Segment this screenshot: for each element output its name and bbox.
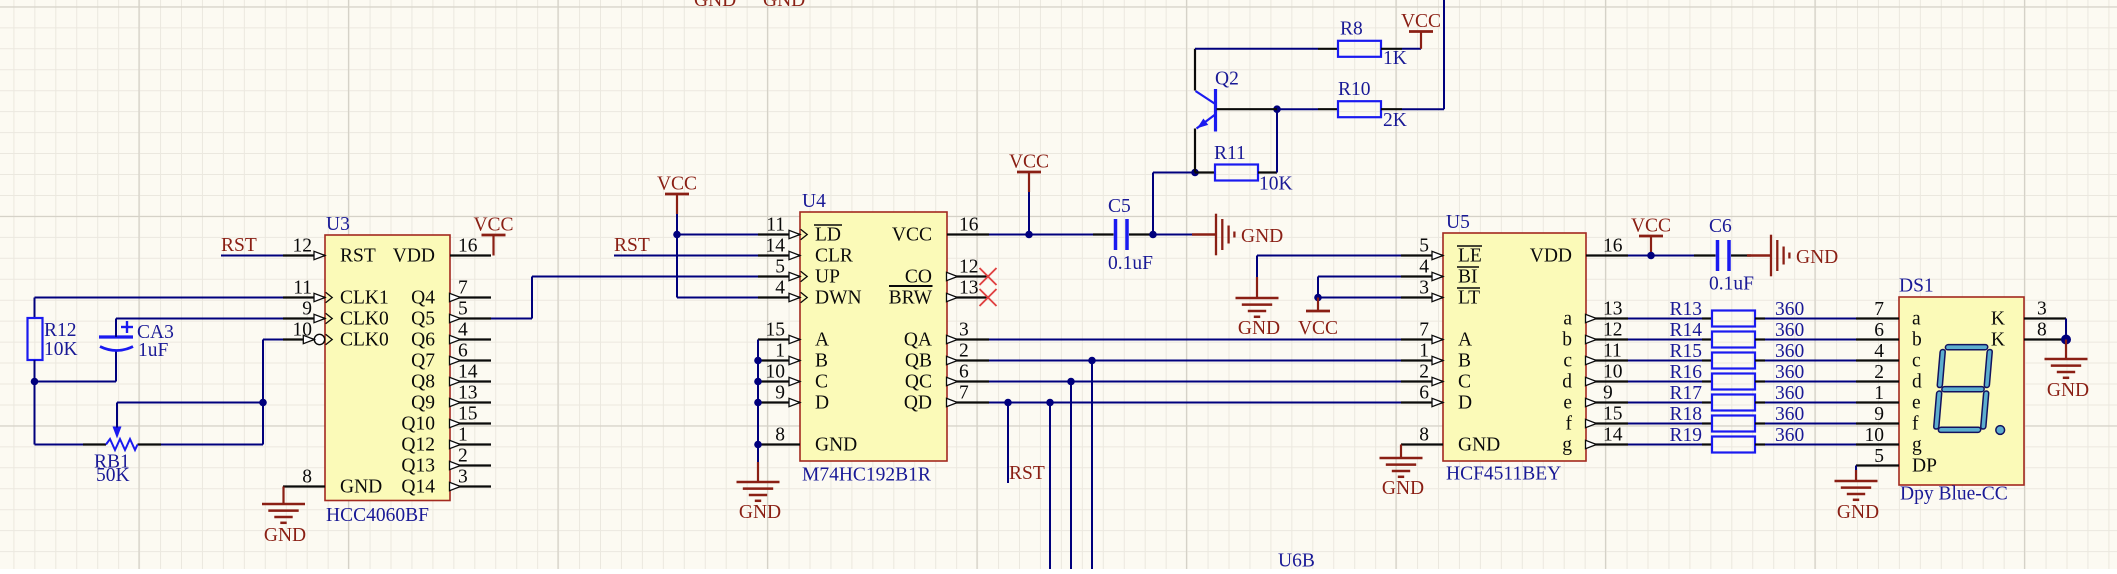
- svg-text:C5: C5: [1108, 196, 1131, 217]
- svg-text:10: 10: [1865, 425, 1885, 446]
- wire QC drop to U6B: [1070, 382, 1072, 570]
- svg-text:9: 9: [775, 383, 785, 404]
- transistor Q2 NPN: [1195, 49, 1239, 173]
- U5 pin 4 BI: [1401, 257, 1479, 288]
- wire R10 to top rail: [1402, 0, 1444, 109]
- svg-text:Q10: Q10: [401, 413, 435, 434]
- svg-text:VCC: VCC: [1009, 152, 1049, 173]
- resistor R11 10K: [1195, 143, 1293, 195]
- svg-text:C: C: [1458, 371, 1471, 392]
- svg-text:e: e: [1563, 392, 1572, 413]
- svg-text:10: 10: [293, 320, 313, 341]
- capacitor CA3 1uF polarized: [99, 321, 174, 361]
- svg-text:CLK0: CLK0: [340, 329, 389, 350]
- svg-text:d: d: [1912, 371, 1922, 392]
- resistor R18 360: [1669, 404, 1804, 432]
- ground GND below U3: [262, 487, 306, 547]
- resistor R10 2K: [1318, 79, 1407, 131]
- svg-text:14: 14: [458, 362, 478, 383]
- svg-text:BRW: BRW: [889, 287, 933, 308]
- svg-text:Q6: Q6: [411, 329, 435, 350]
- svg-text:1uF: 1uF: [138, 340, 169, 361]
- svg-text:GND: GND: [1238, 318, 1280, 339]
- svg-text:B: B: [815, 350, 828, 371]
- U5 pin 13 a: [1563, 299, 1628, 330]
- wire LE: [1257, 255, 1401, 257]
- svg-text:QD: QD: [904, 392, 932, 413]
- svg-text:5: 5: [458, 299, 468, 320]
- wire Q2 base: [1217, 108, 1319, 110]
- net label RST (drop): [1009, 463, 1045, 484]
- DS1 pin 8 K: [1991, 320, 2066, 351]
- DS1 pin 3 K: [1991, 299, 2066, 330]
- svg-text:f: f: [1566, 413, 1573, 434]
- U5 pin 3 LT: [1401, 278, 1480, 309]
- svg-text:QA: QA: [904, 329, 932, 350]
- U3 pin 16 VDD: [393, 236, 491, 267]
- power VCC at U3 VDD: [473, 215, 513, 256]
- svg-text:RST: RST: [614, 235, 650, 256]
- U3 pin 15 Q10: [401, 404, 491, 435]
- power VCC above U4: [657, 174, 697, 235]
- wire U4 ABCD to ground rail: [757, 340, 759, 463]
- svg-text:360: 360: [1775, 425, 1804, 446]
- clipped GND labels at top edge: [694, 0, 805, 11]
- svg-text:7: 7: [1419, 320, 1429, 341]
- svg-text:13: 13: [959, 278, 979, 299]
- power VCC at R8: [1401, 11, 1441, 49]
- U4 pin 5 UP: [758, 257, 840, 288]
- svg-text:3: 3: [458, 467, 468, 488]
- wire R11 right to base node: [1276, 109, 1278, 172]
- svg-text:16: 16: [1603, 236, 1623, 257]
- svg-text:8: 8: [302, 467, 312, 488]
- svg-text:R10: R10: [1338, 79, 1371, 100]
- svg-text:g: g: [1562, 434, 1572, 455]
- U3 pin 14 Q8: [411, 362, 491, 393]
- svg-text:2: 2: [1419, 362, 1429, 383]
- U5 pin 1 B: [1401, 341, 1471, 372]
- svg-text:4: 4: [1419, 257, 1429, 278]
- svg-text:14: 14: [1603, 425, 1623, 446]
- svg-text:R13: R13: [1669, 299, 1702, 320]
- svg-text:RST: RST: [221, 235, 257, 256]
- svg-text:9: 9: [1874, 404, 1884, 425]
- U3 pin 6 Q7: [411, 341, 491, 372]
- wire U5 e to R17: [1628, 402, 1702, 404]
- svg-text:R14: R14: [1669, 320, 1702, 341]
- svg-text:K: K: [1991, 329, 2005, 350]
- svg-text:12: 12: [293, 236, 313, 257]
- svg-text:Dpy Blue-CC: Dpy Blue-CC: [1900, 484, 2008, 505]
- svg-text:VCC: VCC: [1401, 11, 1441, 32]
- svg-text:BI: BI: [1458, 266, 1478, 287]
- junction R12/CA3/RB1 node: [31, 378, 39, 386]
- svg-text:CO: CO: [905, 266, 932, 287]
- svg-text:LD: LD: [815, 224, 841, 245]
- svg-text:GND: GND: [1837, 502, 1879, 523]
- svg-text:6: 6: [1874, 320, 1884, 341]
- wire U5 a to R13: [1628, 318, 1702, 320]
- no-ERC marker on U4 pin 12: [980, 268, 997, 285]
- svg-text:1K: 1K: [1383, 48, 1407, 69]
- junction U4 GND: [754, 441, 762, 449]
- U4 pin 11 LD: [758, 215, 842, 246]
- svg-text:GND: GND: [739, 502, 781, 523]
- svg-text:13: 13: [458, 383, 478, 404]
- svg-text:4: 4: [458, 320, 468, 341]
- svg-text:C: C: [815, 371, 828, 392]
- svg-text:DP: DP: [1912, 455, 1937, 476]
- svg-text:U4: U4: [802, 191, 826, 212]
- wire Q2 collector to R8: [1195, 48, 1318, 50]
- svg-text:8: 8: [775, 425, 785, 446]
- ground GND at U5 LE wire: [1236, 256, 1281, 340]
- IC U5 HCF4511BEY body: [1443, 212, 1586, 485]
- svg-text:15: 15: [458, 404, 478, 425]
- svg-text:LT: LT: [1458, 287, 1480, 308]
- svg-text:13: 13: [1603, 299, 1623, 320]
- resistor R13 360: [1669, 299, 1804, 327]
- display DS1 Dpy Blue-CC body: [1899, 276, 2024, 505]
- wire CA3 top to U3 pin 9: [116, 319, 283, 338]
- svg-text:1: 1: [1874, 383, 1884, 404]
- svg-text:2K: 2K: [1383, 110, 1407, 131]
- DS1 pin 9 f: [1856, 404, 1919, 434]
- U4 pin 7 QD: [904, 383, 989, 414]
- U5 pin 8 GND: [1401, 425, 1500, 456]
- svg-text:12: 12: [959, 257, 979, 278]
- svg-text:DS1: DS1: [1899, 276, 1934, 297]
- wire R18 to DS1 f: [1765, 423, 1856, 425]
- U4 pin 4 DWN: [758, 278, 862, 309]
- svg-text:b: b: [1562, 329, 1572, 350]
- svg-text:RST: RST: [1009, 463, 1045, 484]
- junction U4 C: [754, 378, 762, 386]
- U3 pin 13 Q9: [411, 383, 491, 414]
- wire LT: [1318, 297, 1401, 299]
- U4 pin 6 QC: [905, 362, 989, 393]
- svg-text:1: 1: [775, 341, 785, 362]
- U5 pin 10 d: [1562, 362, 1628, 393]
- svg-text:GND: GND: [763, 0, 805, 11]
- ground GND below K pins: [2045, 340, 2090, 402]
- svg-text:11: 11: [766, 215, 785, 236]
- svg-text:2: 2: [959, 341, 969, 362]
- svg-text:VDD: VDD: [1530, 245, 1572, 266]
- svg-text:10K: 10K: [1259, 174, 1293, 195]
- svg-text:R15: R15: [1669, 341, 1702, 362]
- U5 pin 2 C: [1401, 362, 1471, 393]
- wire BI: [1318, 277, 1401, 298]
- svg-text:GND: GND: [1458, 434, 1500, 455]
- svg-text:11: 11: [293, 278, 312, 299]
- U4 pin 2 QB: [905, 341, 989, 372]
- junction VCC/LD node: [673, 231, 681, 239]
- resistor R16 360: [1669, 362, 1804, 390]
- svg-text:360: 360: [1775, 320, 1804, 341]
- svg-text:360: 360: [1775, 362, 1804, 383]
- DS1 pin 4 c: [1856, 341, 1921, 371]
- U4 pin 16 VCC: [892, 215, 989, 246]
- ground GND at DS1 DP: [1835, 466, 1880, 524]
- wire R15 to DS1 c: [1765, 360, 1856, 362]
- svg-text:2: 2: [458, 446, 468, 467]
- U3 pin 9 CLK0: [283, 299, 389, 330]
- DS1 pin 1 e: [1856, 383, 1921, 413]
- junction K node: [2061, 335, 2071, 345]
- svg-text:CLK1: CLK1: [340, 287, 389, 308]
- wire R13 to DS1 a: [1765, 318, 1856, 320]
- U5 pin 9 e: [1563, 383, 1628, 414]
- svg-text:c: c: [1563, 350, 1572, 371]
- wire CA3 bottom net: [35, 352, 117, 382]
- svg-text:c: c: [1912, 350, 1921, 371]
- svg-text:D: D: [815, 392, 829, 413]
- svg-text:16: 16: [959, 215, 979, 236]
- U3 pin 3 Q14: [401, 467, 491, 498]
- svg-text:VCC: VCC: [657, 174, 697, 195]
- wire U4 VCC net to C5: [989, 234, 1093, 236]
- svg-text:6: 6: [1419, 383, 1429, 404]
- junction C5/Q2 node: [1149, 231, 1157, 239]
- svg-text:10K: 10K: [44, 339, 78, 360]
- svg-text:GND: GND: [2047, 380, 2089, 401]
- svg-text:U6B: U6B: [1278, 551, 1315, 570]
- svg-text:12: 12: [1603, 320, 1623, 341]
- power VCC below LT wire: [1298, 298, 1338, 340]
- ground GND bar right of C5: [1192, 214, 1283, 256]
- wire U5 c to R15: [1628, 360, 1702, 362]
- wire QA to U5 A: [989, 339, 1401, 341]
- U3 pin 10 CLK0: [283, 320, 389, 351]
- wire RB1 wiper net to U3 pin 10: [117, 340, 283, 445]
- svg-text:Q13: Q13: [401, 455, 435, 476]
- resistor R8 1K: [1318, 19, 1407, 70]
- svg-text:d: d: [1562, 371, 1572, 392]
- junction QD drop: [1046, 399, 1054, 407]
- svg-text:R18: R18: [1669, 404, 1702, 425]
- power VCC at U5 VDD: [1628, 216, 1694, 256]
- U5 pin 5 LE: [1401, 236, 1482, 267]
- DS1 pin 6 b: [1856, 320, 1922, 350]
- U5 pin 7 A: [1401, 320, 1472, 351]
- ground GND below U5: [1380, 445, 1425, 500]
- wire QB drop to U6B: [1091, 361, 1093, 570]
- net label RST (left): [221, 235, 257, 256]
- svg-text:A: A: [1458, 329, 1472, 350]
- U5 pin 14 g: [1562, 425, 1628, 456]
- U3 pin 7 Q4: [411, 278, 491, 309]
- svg-text:4: 4: [775, 278, 785, 299]
- svg-text:R11: R11: [1214, 143, 1246, 164]
- resistor R14 360: [1669, 320, 1804, 348]
- svg-text:g: g: [1912, 434, 1922, 455]
- DS1 pin 5 DP: [1856, 446, 1937, 476]
- svg-text:14: 14: [766, 236, 786, 257]
- svg-text:f: f: [1912, 413, 1919, 434]
- svg-text:Q2: Q2: [1215, 69, 1239, 90]
- wire R14 to DS1 b: [1765, 339, 1856, 341]
- svg-text:VCC: VCC: [1631, 216, 1671, 237]
- svg-text:5: 5: [775, 257, 785, 278]
- svg-text:3: 3: [1419, 278, 1429, 299]
- wire VCC to U4 LD and DWN: [677, 235, 758, 298]
- svg-text:VCC: VCC: [892, 224, 932, 245]
- wire R12 bottom: [34, 360, 36, 445]
- capacitor C6 0.1uF: [1694, 216, 1754, 295]
- svg-text:R19: R19: [1669, 425, 1702, 446]
- svg-text:B: B: [1458, 350, 1471, 371]
- U3 pin 4 Q6: [411, 320, 491, 351]
- svg-text:3: 3: [2037, 299, 2047, 320]
- resistor R12: [28, 318, 78, 360]
- svg-text:6: 6: [959, 362, 969, 383]
- svg-text:D: D: [1458, 392, 1472, 413]
- svg-text:GND: GND: [1796, 247, 1838, 268]
- svg-text:Q4: Q4: [411, 287, 435, 308]
- wire RST to U4 CLR: [614, 255, 758, 257]
- wire U5 g to R19: [1628, 444, 1702, 446]
- svg-text:GND: GND: [815, 434, 857, 455]
- svg-text:360: 360: [1775, 299, 1804, 320]
- junction base/R10 node: [1273, 105, 1281, 113]
- resistor R19 360: [1669, 425, 1804, 453]
- junction U4 B: [754, 357, 762, 365]
- svg-text:10: 10: [766, 362, 786, 383]
- svg-text:1: 1: [458, 425, 468, 446]
- svg-text:HCF4511BEY: HCF4511BEY: [1446, 464, 1561, 485]
- junction VCC column node: [1025, 231, 1033, 239]
- svg-text:U3: U3: [326, 214, 350, 235]
- resistor R17 360: [1669, 383, 1804, 411]
- junction QC drop: [1067, 378, 1075, 386]
- svg-text:Q8: Q8: [411, 371, 435, 392]
- svg-text:5: 5: [1419, 236, 1429, 257]
- svg-text:b: b: [1912, 329, 1922, 350]
- U3 pin 11 CLK1: [283, 278, 389, 309]
- wire R17 to DS1 e: [1765, 402, 1856, 404]
- wire R16 to DS1 d: [1765, 381, 1856, 383]
- DS1 pin 10 g: [1856, 425, 1922, 455]
- svg-text:10: 10: [1603, 362, 1623, 383]
- svg-text:16: 16: [458, 236, 478, 257]
- svg-text:3: 3: [959, 320, 969, 341]
- wire QB to U5 B: [989, 360, 1401, 362]
- svg-text:a: a: [1912, 308, 1921, 329]
- svg-text:360: 360: [1775, 383, 1804, 404]
- svg-text:VCC: VCC: [473, 215, 513, 236]
- junction BI/LT/VCC node: [1314, 294, 1322, 302]
- DS1 pin 7 a: [1856, 299, 1921, 329]
- svg-text:e: e: [1912, 392, 1921, 413]
- svg-text:Q5: Q5: [411, 308, 435, 329]
- U4 pin 13 BRW: [889, 278, 989, 309]
- svg-text:C6: C6: [1709, 216, 1732, 237]
- wire RST to U3 pin 12: [221, 255, 283, 257]
- resistor R15 360: [1669, 341, 1804, 369]
- U4 pin 14 CLR: [758, 236, 853, 267]
- svg-text:15: 15: [1603, 404, 1623, 425]
- U3 pin 8 GND: [283, 467, 382, 498]
- svg-text:0.1uF: 0.1uF: [1709, 274, 1754, 295]
- svg-text:8: 8: [2037, 320, 2047, 341]
- U4 pin 15 A: [758, 320, 829, 351]
- svg-text:7: 7: [959, 383, 969, 404]
- power VCC above C5 wire: [1009, 152, 1049, 235]
- wire QD to U5 D: [989, 402, 1401, 404]
- svg-text:0.1uF: 0.1uF: [1108, 253, 1153, 274]
- svg-text:LE: LE: [1458, 245, 1482, 266]
- svg-text:Q7: Q7: [411, 350, 435, 371]
- svg-text:R16: R16: [1669, 362, 1702, 383]
- wire RST drop: [1007, 403, 1009, 484]
- junction QD RST drop: [1004, 399, 1012, 407]
- U5 pin 6 D: [1401, 383, 1472, 414]
- svg-text:6: 6: [458, 341, 468, 362]
- wire K pins to ground: [2065, 319, 2067, 340]
- wire QC to U5 C: [989, 381, 1401, 383]
- wire U5 b to R14: [1628, 339, 1702, 341]
- svg-text:M74HC192B1R: M74HC192B1R: [802, 465, 931, 486]
- IC U4 M74HC192B1R body: [800, 191, 947, 486]
- U4 pin 10 C: [758, 362, 828, 393]
- svg-text:K: K: [1991, 308, 2005, 329]
- U4 pin 1 B: [758, 341, 828, 372]
- svg-text:HCC4060BF: HCC4060BF: [326, 505, 429, 526]
- svg-text:Q14: Q14: [401, 476, 435, 497]
- U5 pin 11 c: [1563, 341, 1628, 372]
- capacitor C5 0.1uF: [1093, 196, 1153, 274]
- svg-text:7: 7: [458, 278, 468, 299]
- svg-text:9: 9: [302, 299, 312, 320]
- svg-text:R12: R12: [44, 320, 77, 341]
- wire bottom run through RB1: [35, 444, 264, 446]
- U4 pin 3 QA: [904, 320, 989, 351]
- svg-text:GND: GND: [694, 0, 736, 11]
- U5 pin 15 f: [1566, 404, 1629, 435]
- svg-text:Q12: Q12: [401, 434, 435, 455]
- svg-text:RST: RST: [340, 245, 376, 266]
- wire C5 node up to R11/emitter node: [1153, 173, 1195, 235]
- svg-text:2: 2: [1874, 362, 1884, 383]
- svg-text:5: 5: [1874, 446, 1884, 467]
- svg-text:8: 8: [1419, 425, 1429, 446]
- svg-text:GND: GND: [1241, 226, 1283, 247]
- svg-text:QB: QB: [905, 350, 932, 371]
- wire C5 right to ground bar: [1150, 234, 1192, 236]
- wire CLK1 net (R12 top to U3 pin 11): [35, 298, 284, 319]
- IC U3 HCC4060BF body: [325, 214, 450, 526]
- junction QB drop: [1088, 357, 1096, 365]
- wire R19 to DS1 g: [1765, 444, 1856, 446]
- decimal point of DS1: [1996, 426, 2005, 435]
- svg-text:4: 4: [1874, 341, 1884, 362]
- svg-text:DWN: DWN: [815, 287, 862, 308]
- U3 pin 2 Q13: [401, 446, 491, 477]
- svg-text:GND: GND: [1382, 478, 1424, 499]
- seven segment digit of DS1: [1936, 347, 1990, 430]
- wire U5 d to R16: [1628, 381, 1702, 383]
- U4 pin 9 D: [758, 383, 829, 414]
- svg-text:50K: 50K: [96, 465, 130, 486]
- svg-text:UP: UP: [815, 266, 840, 287]
- svg-text:QC: QC: [905, 371, 932, 392]
- svg-text:VDD: VDD: [393, 245, 435, 266]
- junction U4 D: [754, 399, 762, 407]
- junction VDD/VCC node: [1647, 252, 1655, 260]
- svg-text:GND: GND: [264, 525, 306, 546]
